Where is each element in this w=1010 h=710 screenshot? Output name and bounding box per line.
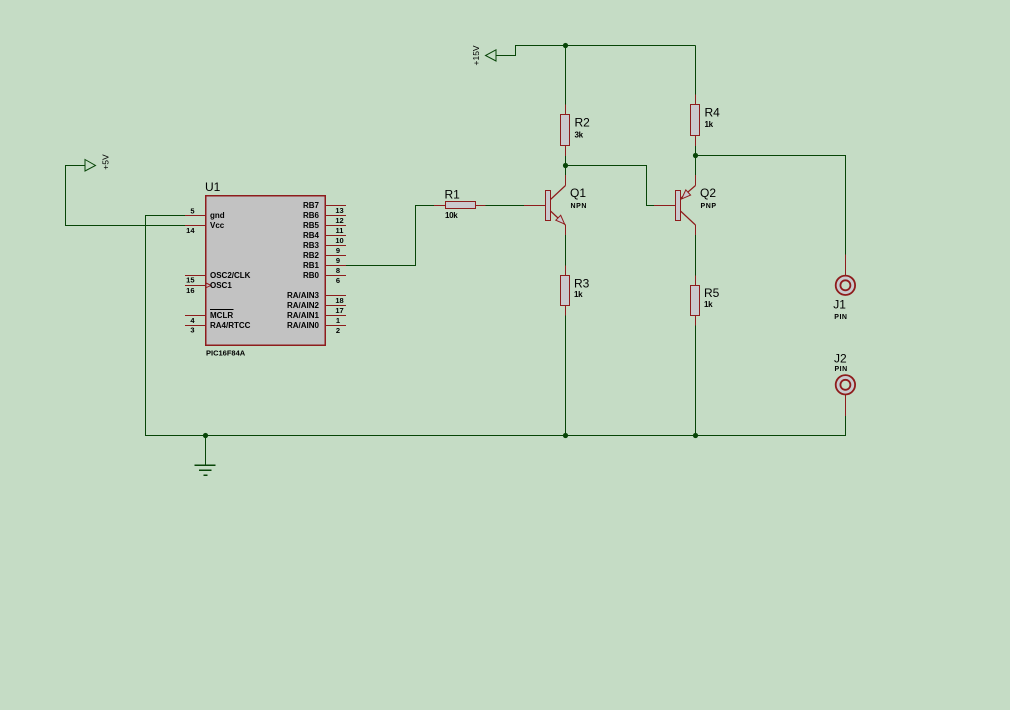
svg-text:1: 1 xyxy=(336,316,340,325)
svg-text:RA4/RTCC: RA4/RTCC xyxy=(210,321,251,330)
svg-text:12: 12 xyxy=(335,216,343,225)
svg-text:3k: 3k xyxy=(575,131,584,140)
svg-text:RA/AIN1: RA/AIN1 xyxy=(287,311,320,320)
svg-text:Vcc: Vcc xyxy=(210,221,225,230)
svg-text:R3: R3 xyxy=(574,276,590,290)
svg-text:RB5: RB5 xyxy=(303,221,320,230)
svg-text:17: 17 xyxy=(335,306,343,315)
svg-text:9: 9 xyxy=(336,246,340,255)
svg-text:MCLR: MCLR xyxy=(210,311,233,320)
svg-text:1k: 1k xyxy=(705,120,714,129)
svg-text:8: 8 xyxy=(336,266,340,275)
svg-text:RB7: RB7 xyxy=(303,201,320,210)
svg-text:1k: 1k xyxy=(704,300,713,309)
svg-text:18: 18 xyxy=(335,296,343,305)
svg-text:RB2: RB2 xyxy=(303,251,320,260)
svg-text:R2: R2 xyxy=(575,116,591,130)
svg-text:10: 10 xyxy=(335,236,343,245)
svg-text:3: 3 xyxy=(190,326,194,335)
svg-text:RA/AIN0: RA/AIN0 xyxy=(287,321,320,330)
svg-text:1k: 1k xyxy=(574,290,583,299)
svg-text:PIN: PIN xyxy=(835,366,848,373)
svg-text:U1: U1 xyxy=(205,180,221,194)
svg-text:PIN: PIN xyxy=(834,314,847,321)
svg-text:R1: R1 xyxy=(445,187,461,201)
svg-text:RB1: RB1 xyxy=(303,261,320,270)
svg-text:R5: R5 xyxy=(704,286,720,300)
svg-text:J2: J2 xyxy=(834,352,847,366)
svg-text:RA/AIN3: RA/AIN3 xyxy=(287,291,320,300)
svg-text:Q2: Q2 xyxy=(700,186,716,200)
svg-text:RA/AIN2: RA/AIN2 xyxy=(287,301,320,310)
svg-text:RB3: RB3 xyxy=(303,241,320,250)
svg-text:14: 14 xyxy=(186,226,195,235)
svg-text:16: 16 xyxy=(186,286,194,295)
svg-text:6: 6 xyxy=(336,276,340,285)
svg-text:Q1: Q1 xyxy=(570,186,586,200)
svg-text:+5V: +5V xyxy=(101,154,111,170)
svg-text:5: 5 xyxy=(190,206,194,215)
svg-text:11: 11 xyxy=(336,226,344,235)
svg-text:PNP: PNP xyxy=(701,203,717,210)
svg-text:13: 13 xyxy=(335,206,343,215)
svg-text:NPN: NPN xyxy=(571,203,588,210)
svg-text:RB0: RB0 xyxy=(303,271,320,280)
svg-text:gnd: gnd xyxy=(210,211,225,220)
svg-text:PIC16F84A: PIC16F84A xyxy=(206,348,246,357)
svg-text:9: 9 xyxy=(336,256,340,265)
svg-text:RB6: RB6 xyxy=(303,211,320,220)
svg-text:2: 2 xyxy=(336,326,340,335)
svg-text:OSC1: OSC1 xyxy=(210,281,232,290)
svg-text:R4: R4 xyxy=(705,105,721,119)
svg-text:J1: J1 xyxy=(833,297,846,311)
svg-text:10k: 10k xyxy=(445,211,458,220)
svg-text:15: 15 xyxy=(186,275,194,284)
svg-text:RB4: RB4 xyxy=(303,231,320,240)
svg-text:+15V: +15V xyxy=(471,45,481,65)
svg-text:OSC2/CLK: OSC2/CLK xyxy=(210,271,251,280)
